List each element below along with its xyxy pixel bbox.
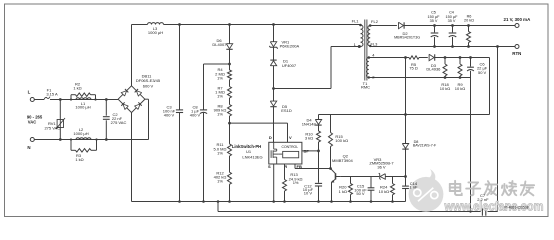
svg-text:100 kΩ: 100 kΩ bbox=[335, 138, 348, 143]
svg-text:N: N bbox=[27, 145, 30, 150]
svg-text:75 Ω: 75 Ω bbox=[409, 66, 418, 71]
svg-text:10 kΩ: 10 kΩ bbox=[440, 86, 451, 91]
svg-text:36 V: 36 V bbox=[377, 164, 386, 169]
svg-text:1000 µH: 1000 µH bbox=[148, 30, 163, 35]
svg-text:21 V, 300 mA: 21 V, 300 mA bbox=[504, 17, 532, 22]
svg-text:1%: 1% bbox=[217, 112, 223, 117]
svg-text:FL1: FL1 bbox=[352, 18, 360, 23]
svg-text:PI-4861-051508: PI-4861-051508 bbox=[504, 206, 528, 210]
svg-text:3.15 A: 3.15 A bbox=[46, 91, 58, 96]
svg-text:1%: 1% bbox=[217, 94, 223, 99]
svg-text:35 V: 35 V bbox=[430, 19, 438, 23]
svg-text:DL4007: DL4007 bbox=[212, 42, 227, 47]
svg-text:C5: C5 bbox=[431, 10, 436, 14]
svg-text:BAV21WS-7-F: BAV21WS-7-F bbox=[413, 144, 437, 148]
svg-text:FL3: FL3 bbox=[370, 42, 378, 47]
svg-text:10 V: 10 V bbox=[304, 191, 313, 196]
svg-text:ES1D: ES1D bbox=[281, 108, 292, 113]
svg-text:1%: 1% bbox=[217, 150, 223, 155]
svg-text:20 kΩ: 20 kΩ bbox=[464, 19, 474, 23]
svg-text:RTN: RTN bbox=[512, 51, 521, 56]
svg-text:DF06S-E3/45: DF06S-E3/45 bbox=[136, 78, 161, 83]
svg-text:50 V: 50 V bbox=[356, 191, 365, 196]
svg-text:1%: 1% bbox=[293, 180, 299, 185]
svg-text:1 kΩ: 1 kΩ bbox=[75, 157, 83, 162]
svg-text:V: V bbox=[289, 135, 292, 140]
svg-text:50 V: 50 V bbox=[478, 70, 487, 75]
svg-text:2.2 nF: 2.2 nF bbox=[477, 197, 489, 202]
svg-text:10 kΩ: 10 kΩ bbox=[379, 189, 390, 194]
svg-text:DL4936: DL4936 bbox=[426, 67, 441, 72]
svg-text:1 kΩ: 1 kΩ bbox=[73, 86, 81, 91]
svg-text:1 nF: 1 nF bbox=[409, 185, 418, 190]
svg-text:400 V: 400 V bbox=[164, 112, 175, 117]
svg-text:P6KE200A: P6KE200A bbox=[280, 44, 300, 49]
svg-text:LNK413EG: LNK413EG bbox=[242, 154, 262, 159]
svg-text:35 V: 35 V bbox=[448, 19, 456, 23]
svg-text:10 kΩ: 10 kΩ bbox=[455, 86, 466, 91]
svg-text:MMBT3904: MMBT3904 bbox=[332, 158, 353, 163]
svg-text:S: S bbox=[268, 164, 271, 169]
svg-text:CONTROL: CONTROL bbox=[282, 145, 299, 149]
svg-text:1000 µH: 1000 µH bbox=[73, 131, 88, 136]
svg-text:600 V: 600 V bbox=[143, 84, 154, 89]
svg-text:4: 4 bbox=[372, 53, 375, 58]
svg-text:U1: U1 bbox=[246, 149, 252, 154]
svg-text:RMC: RMC bbox=[361, 85, 370, 90]
svg-text:L: L bbox=[28, 90, 31, 95]
svg-text:2: 2 bbox=[372, 74, 375, 79]
svg-text:275 VAC: 275 VAC bbox=[44, 125, 60, 130]
svg-text:FL2: FL2 bbox=[371, 19, 379, 24]
svg-text:1%: 1% bbox=[217, 179, 223, 184]
svg-text:1%: 1% bbox=[217, 75, 223, 80]
svg-text:275 VAC: 275 VAC bbox=[111, 120, 127, 125]
svg-text:VAC: VAC bbox=[28, 120, 37, 125]
svg-text:1N4148: 1N4148 bbox=[302, 122, 317, 127]
svg-text:1000 µH: 1000 µH bbox=[75, 105, 90, 110]
svg-text:400 V: 400 V bbox=[190, 112, 201, 117]
svg-text:3 kΩ: 3 kΩ bbox=[305, 135, 313, 140]
svg-text:C4: C4 bbox=[449, 10, 454, 14]
svg-text:MBRS4201T3G: MBRS4201T3G bbox=[394, 36, 420, 40]
svg-text:UF4007: UF4007 bbox=[282, 63, 297, 68]
svg-text:D: D bbox=[269, 135, 272, 140]
svg-text:1 kΩ: 1 kΩ bbox=[339, 189, 347, 194]
